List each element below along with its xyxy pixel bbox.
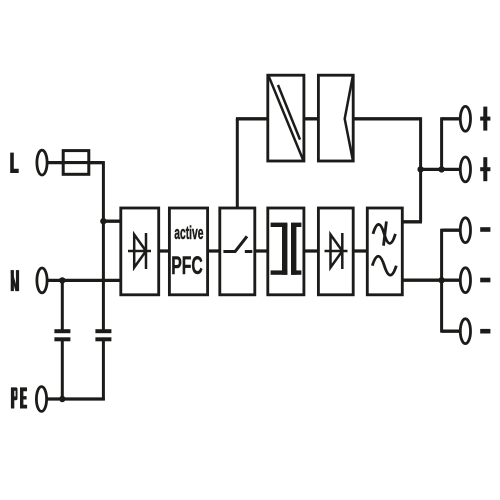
terminal -1 (460, 218, 470, 243)
svg-text:active: active (174, 223, 203, 243)
wire minus output from filter (400, 279, 442, 282)
block U3 switching stage (220, 208, 255, 295)
diode D2 in output rectifier block (325, 233, 348, 269)
wire boost path horizontal (236, 117, 421, 120)
switch S1 contact (223, 236, 252, 252)
polarity sign -3 (480, 329, 490, 334)
wire N to CY1 top (61, 280, 64, 330)
wire minus bus to terminal -3 (442, 330, 461, 333)
polarity sign -2 (480, 278, 490, 283)
label PE (11, 387, 27, 408)
wire riser to terminal +1 (442, 117, 461, 120)
fuse F1 (63, 151, 89, 175)
wire switch block top to boost path (236, 119, 239, 208)
junction dot plus rail left (417, 166, 423, 172)
wire minus bus to terminal -2 (442, 279, 461, 282)
junction dot minus bus (438, 277, 444, 283)
junction dot plus rail right (438, 166, 444, 172)
decoupling diagonal symbol (269, 76, 304, 160)
wire CY2 bottom to PE row corner (102, 340, 105, 400)
junction dot PE-CY1 (59, 396, 65, 402)
terminal +1 (460, 106, 470, 131)
wire CY1 bottom to PE row (61, 340, 64, 399)
wire plus rail to terminal +2 (421, 168, 461, 171)
block U6 output filter (367, 208, 402, 295)
wire L vertical down to Y-cap CY2 (102, 161, 105, 330)
block U8 boost (chevron) (318, 75, 353, 161)
wire N row (47, 279, 131, 282)
wire minus bus vertical (440, 229, 443, 333)
terminal PE (36, 387, 46, 412)
label L (10, 153, 19, 173)
transformer T1 core bars (271, 223, 302, 275)
polarity sign +2 (483, 157, 487, 181)
wire minus bus to terminal -1 (442, 229, 461, 232)
block U4 transformer (268, 208, 304, 295)
wire plus rail riser (440, 117, 443, 169)
capacitor CY1 plates (54, 329, 111, 341)
wire PE row (47, 397, 105, 400)
terminal N (37, 268, 47, 293)
wire boost output down right (419, 117, 422, 222)
wire L branch into rectifier (103, 220, 130, 223)
terminal -3 (460, 319, 470, 344)
polarity sign +1 (480, 107, 490, 334)
boost chevron symbol (345, 76, 353, 160)
block U5 output rectifier (318, 208, 353, 295)
wire L terminal to fuse to corner (47, 161, 104, 164)
label PFC (171, 252, 203, 280)
label active (174, 223, 203, 243)
polarity sign -1 (480, 227, 490, 232)
filter sine lower (372, 256, 396, 275)
block U7 decoupling (diagonal) (268, 75, 304, 161)
terminal L (37, 150, 47, 175)
block U2 active PFC (169, 208, 207, 295)
junction dot L-rectifier (100, 218, 106, 224)
wire output filter top to boost vertical (400, 220, 422, 223)
junction dot N-CY1 (59, 277, 65, 283)
label N (11, 270, 19, 291)
wire through fuse (60, 161, 103, 164)
svg-text:PFC: PFC (171, 252, 203, 280)
terminal -2 (460, 268, 470, 293)
wire main converter row (130, 249, 400, 252)
capacitor CY2 plates (95, 329, 111, 333)
diode D1 in rectifier block (128, 233, 151, 269)
filter AC-suppression sine upper (372, 221, 396, 275)
block U1 input rectifier (121, 208, 159, 295)
terminal +2 (460, 157, 470, 182)
